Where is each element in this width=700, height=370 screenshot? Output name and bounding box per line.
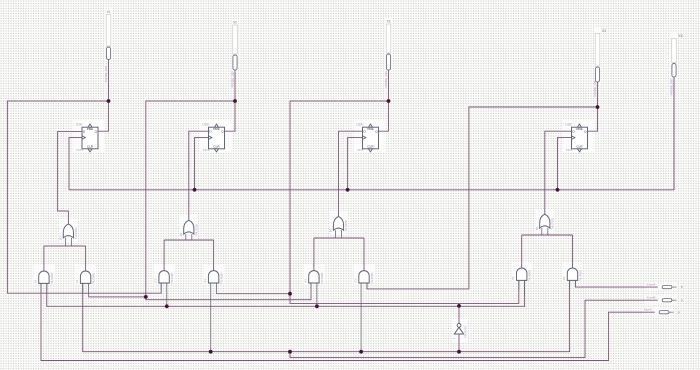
svg-text:A1: A1 xyxy=(562,276,566,280)
junction clock tap stage 2 xyxy=(193,188,197,192)
svg-text:PROBE_DIG: PROBE_DIG xyxy=(593,80,597,96)
wire Q output stage 1 xyxy=(98,101,109,131)
svg-text:74LS08D: 74LS08D xyxy=(579,270,583,282)
wire Q output stage 3 xyxy=(379,101,389,131)
svg-text:74LS08D: 74LS08D xyxy=(220,273,224,285)
junction node Q4 at probe X4 xyxy=(596,105,600,109)
indicator probe X5 xyxy=(670,34,683,190)
wire S1 to stage4 AND xyxy=(575,280,657,287)
junction L351 to AND3B xyxy=(359,350,363,354)
svg-text:PROBE_DIG: PROBE_DIG xyxy=(231,71,235,87)
svg-text:A1: A1 xyxy=(33,279,37,283)
junction line3 to AND2A xyxy=(165,304,169,308)
svg-text:X4: X4 xyxy=(602,29,606,33)
svg-text:B1: B1 xyxy=(179,232,183,236)
svg-text:U1B: U1B xyxy=(202,122,208,126)
wire AND1b input stubs xyxy=(82,283,84,293)
OR gate OR4 xyxy=(535,214,555,230)
svg-text:74LS08D: 74LS08D xyxy=(320,273,324,285)
wire net Q4: drop to stage3 AND xyxy=(367,107,598,289)
wire OR2 input tree xyxy=(164,239,214,241)
svg-text:A1: A1 xyxy=(511,276,515,280)
svg-text:CLR: CLR xyxy=(367,145,374,149)
wire line3 right-shift enable net xyxy=(47,280,525,306)
svg-text:U2A: U2A xyxy=(356,122,363,126)
svg-text:B1: B1 xyxy=(58,236,62,240)
junction node Q2 at probe X2 xyxy=(233,99,237,103)
wire Q output stage 4 xyxy=(588,107,598,131)
junction node Q3 at probe X3 xyxy=(387,99,391,103)
svg-text:PRE: PRE xyxy=(576,127,582,131)
D flip-flop U1 xyxy=(76,122,98,151)
svg-text:Key=B: Key=B xyxy=(647,296,656,300)
junction L351 to S2 branch xyxy=(288,350,292,354)
wire Q output stage 2 xyxy=(225,101,236,131)
junction L351 to inverter input xyxy=(457,350,461,354)
wire OR3 input tree xyxy=(314,237,364,239)
input switch S3 xyxy=(644,308,680,315)
svg-text:PROBE_DIG: PROBE_DIG xyxy=(104,66,108,82)
svg-text:7474: 7474 xyxy=(566,148,573,152)
wire AND1a input stubs xyxy=(40,283,42,293)
wire D input route stage 1 xyxy=(58,131,82,224)
D flip-flop U2 xyxy=(202,122,224,151)
AND gate AND1A xyxy=(33,271,54,285)
wire S2 control net routing xyxy=(290,300,658,357)
svg-text:X3: X3 xyxy=(386,20,390,24)
wire net Q1: probe junction to left rail xyxy=(7,101,161,293)
svg-text:7474: 7474 xyxy=(357,148,364,152)
svg-text:74LS08D: 74LS08D xyxy=(92,273,96,285)
indicator probe X2 xyxy=(231,21,238,102)
D flip-flop U3 xyxy=(356,122,378,151)
wire OR4 input tree xyxy=(522,234,573,236)
svg-text:CLR: CLR xyxy=(87,145,94,149)
wire AND3a input stubs xyxy=(310,283,312,290)
wire clock tap stage 1 xyxy=(69,138,82,190)
svg-text:X1: X1 xyxy=(106,10,110,14)
svg-text:A1: A1 xyxy=(353,279,357,283)
wire AND2b input stubs xyxy=(210,283,212,351)
wire net Q2: drop and distribution xyxy=(146,101,235,297)
wire AND4b input stubs xyxy=(569,280,571,290)
svg-text:X2: X2 xyxy=(233,21,237,25)
svg-text:74LS08D: 74LS08D xyxy=(170,273,174,285)
OR gate OR2 xyxy=(179,220,199,236)
svg-text:74LS32D: 74LS32D xyxy=(194,224,198,236)
svg-text:Key=A: Key=A xyxy=(647,283,656,287)
svg-text:74LS08D: 74LS08D xyxy=(50,273,54,285)
wire AND4a input stubs xyxy=(518,280,520,290)
svg-text:74LS32D: 74LS32D xyxy=(344,220,348,232)
svg-text:74LS04D: 74LS04D xyxy=(463,326,467,338)
svg-text:7474: 7474 xyxy=(76,148,83,152)
wire D input route stage 4 xyxy=(545,131,572,214)
wire D input route stage 2 xyxy=(189,131,209,220)
junction node Q1 at probe X1 xyxy=(107,99,111,103)
svg-text:74LS08D: 74LS08D xyxy=(528,270,532,282)
OR gate OR1 xyxy=(58,224,78,240)
svg-text:B1: B1 xyxy=(329,228,333,232)
svg-text:A1: A1 xyxy=(75,279,79,283)
AND gate AND2A xyxy=(154,271,175,285)
junction line3 to AND3A xyxy=(315,304,319,308)
svg-text:Key=C: Key=C xyxy=(644,308,653,312)
svg-text:PROBE_DIG: PROBE_DIG xyxy=(670,79,674,95)
wire L351 left-shift enable net xyxy=(83,280,570,351)
AND gate AND4B xyxy=(562,268,583,282)
wire AND3b input stubs xyxy=(360,283,362,351)
OR gate OR3 xyxy=(329,216,349,232)
svg-text:PRE: PRE xyxy=(87,127,93,131)
component highlight boxes xyxy=(73,121,106,153)
wire net Q3: drop and distribution xyxy=(290,101,389,294)
wire D input route stage 3 xyxy=(339,131,363,216)
svg-text:A1: A1 xyxy=(154,279,158,283)
wire L361 serial input net from S3 xyxy=(41,283,655,360)
svg-text:PROBE_DIG: PROBE_DIG xyxy=(384,71,388,87)
AND gate AND3B xyxy=(353,271,374,285)
junction clock tap stage 4 xyxy=(556,188,560,192)
wire clock tap stage 3 xyxy=(348,138,363,190)
svg-text:U2B: U2B xyxy=(565,122,571,126)
junction Q2 net branch xyxy=(144,295,148,299)
svg-text:CLR: CLR xyxy=(576,145,583,149)
svg-text:7474: 7474 xyxy=(203,148,210,152)
input switch S1 xyxy=(647,283,683,290)
svg-text:74LS32D: 74LS32D xyxy=(550,218,554,230)
wire clock feed from X5 xyxy=(673,77,675,190)
indicator probe X4 xyxy=(593,29,606,107)
junction line3 to inverter output xyxy=(457,304,461,308)
D flip-flop U4 xyxy=(565,122,587,151)
svg-text:U1A: U1A xyxy=(76,122,83,126)
junction L351 to AND2B xyxy=(209,350,213,354)
svg-text:74LS08D: 74LS08D xyxy=(370,273,374,285)
AND gate AND4A xyxy=(511,268,532,282)
svg-text:PRE: PRE xyxy=(367,127,373,131)
wire clock line CLK net xyxy=(69,189,674,191)
svg-text:CLR: CLR xyxy=(213,145,220,149)
indicator probe X3 xyxy=(384,20,391,102)
junction clock tap stage 3 xyxy=(346,188,350,192)
AND gate AND3A xyxy=(303,271,324,285)
wire clock tap stage 4 xyxy=(558,138,572,190)
wire OR1 input tree xyxy=(44,245,86,247)
junction Q3 net branch xyxy=(288,292,292,296)
AND gate AND1B xyxy=(75,271,96,285)
svg-text:PRE: PRE xyxy=(213,127,219,131)
svg-text:X5: X5 xyxy=(679,34,683,38)
indicator probe X1 xyxy=(104,10,111,101)
input switch S2 xyxy=(647,296,683,303)
svg-text:74LS32D: 74LS32D xyxy=(74,228,78,240)
svg-text:A1: A1 xyxy=(203,279,207,283)
wire clock tap stage 2 xyxy=(195,138,209,190)
inverter U3 NOT gate xyxy=(452,306,467,352)
AND gate AND2B xyxy=(203,271,224,285)
wire AND2a input stubs xyxy=(160,283,162,290)
svg-text:B1: B1 xyxy=(535,226,539,230)
svg-text:A1: A1 xyxy=(303,279,307,283)
